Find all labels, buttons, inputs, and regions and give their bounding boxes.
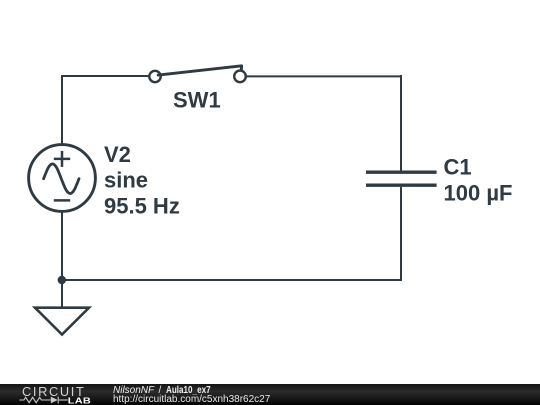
- wire right rail lower (C1 bottom plate down to bottom rail): [400, 187, 402, 281]
- svg-text:sine: sine: [104, 168, 148, 193]
- svg-text:V2: V2: [104, 142, 131, 167]
- wire right rail upper (top rail down to C1 top plate): [400, 75, 402, 171]
- svg-text:100 µF: 100 µF: [444, 181, 513, 206]
- V2 sine waveform: [44, 164, 79, 194]
- label C1 value 100 uF: [444, 181, 513, 206]
- V2 minus sign: [54, 199, 70, 202]
- capacitor C1 top plate: [366, 170, 437, 173]
- wire bottom rail (junction to right rail): [62, 279, 401, 281]
- footer bar: [0, 384, 540, 405]
- label V2 name: [104, 142, 131, 167]
- footer attribution line 1: [113, 385, 221, 396]
- capacitor C1 bottom plate: [366, 183, 437, 186]
- wire left rail lower (V2 - terminal down to junction): [61, 212, 63, 280]
- switch SW1 right terminal: [234, 71, 246, 83]
- CircuitLab logo: [0, 384, 100, 405]
- svg-text:95.5 Hz: 95.5 Hz: [104, 194, 180, 219]
- switch SW1 lever: [158, 66, 242, 75]
- logo resistor zigzag and diode: [19, 397, 67, 404]
- label V2 frequency 95.5 Hz: [104, 194, 180, 219]
- wire ground stub: [61, 280, 63, 307]
- wire left rail upper (top node down to V2 + terminal): [61, 75, 63, 144]
- footer url line 2: [113, 394, 270, 405]
- wire top-left segment (node A to switch left terminal): [62, 75, 149, 77]
- svg-text:SW1: SW1: [173, 88, 221, 113]
- switch SW1 left terminal: [149, 71, 160, 82]
- logo wordmark LAB: [68, 397, 91, 405]
- node junction dot: [58, 276, 66, 284]
- label V2 type sine: [104, 168, 148, 193]
- V2 plus sign: [54, 151, 70, 167]
- label C1 name: [444, 154, 472, 179]
- svg-text:C1: C1: [444, 154, 472, 179]
- ground: [35, 308, 89, 335]
- voltage source V2 body: [29, 145, 96, 212]
- logo wordmark CIRCUIT: [22, 384, 85, 399]
- svg-text:LAB: LAB: [68, 397, 91, 405]
- wire top-right segment (switch right terminal to right rail): [247, 75, 402, 77]
- label SW1: [173, 88, 221, 113]
